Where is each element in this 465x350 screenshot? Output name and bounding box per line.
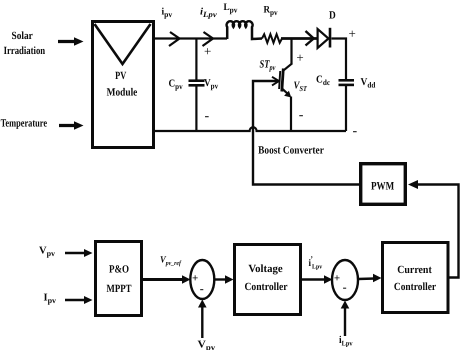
label: V_pv_ref	[160, 256, 182, 268]
capacitor C_pv wire lower	[195, 86, 197, 132]
wire: capacitor C_dc to bottom rail	[345, 85, 347, 131]
label: + in summing junction 1	[192, 272, 198, 284]
label: D	[329, 10, 336, 22]
label: P&O MPPT	[107, 264, 132, 296]
svg-text:Current: Current	[397, 264, 432, 276]
svg-text:Ipv: Ipv	[44, 293, 57, 306]
IGBT ST_pv: collector wire	[283, 39, 292, 71]
svg-text:-: -	[343, 280, 347, 294]
wire: PV module positive output (top rail)	[154, 37, 227, 39]
IGBT ST_pv: emitter with arrow	[282, 89, 291, 131]
label: - (V_ST)	[299, 108, 304, 123]
svg-text:+: +	[296, 50, 303, 65]
wire: diode to DC bus corner down to capacitor	[332, 39, 347, 81]
label: C_pv	[169, 79, 183, 92]
svg-text:Vpv: Vpv	[198, 340, 216, 350]
svg-text:ipv: ipv	[162, 7, 173, 20]
svg-text:Vdd: Vdd	[361, 77, 376, 90]
svg-text:Rpv: Rpv	[264, 5, 278, 18]
label: C_dc	[316, 75, 330, 88]
label: V_pv (capacitor)	[204, 78, 218, 91]
label: + (V_ST)	[296, 50, 303, 65]
arrow: V_pv into MPPT	[65, 249, 93, 257]
svg-text:Solar: Solar	[12, 30, 33, 42]
svg-text:-: -	[299, 108, 304, 123]
svg-text:MPPT: MPPT	[107, 283, 132, 295]
P&O MPPT box	[96, 242, 142, 316]
svg-text:Irradiation: Irradiation	[4, 45, 46, 57]
wire: bottom rail with hop over gate wire	[154, 127, 346, 131]
label: PV Module	[107, 70, 138, 99]
svg-text:Controller: Controller	[394, 281, 436, 293]
arrow: current i_pv on top rail	[169, 32, 180, 46]
label: - in summing junction 1	[200, 281, 204, 295]
label: - (C_pv)	[205, 109, 210, 124]
label: V_pv (MPPT input)	[39, 246, 55, 259]
label: - in summing junction 2	[343, 280, 347, 294]
label: V_pv (below summing junction 1)	[198, 340, 216, 350]
arrow: current i_Lpv on top rail	[203, 32, 214, 46]
svg-text:Boost Converter: Boost Converter	[258, 145, 324, 157]
svg-text:PWM: PWM	[371, 181, 394, 193]
svg-text:Vpv: Vpv	[39, 246, 55, 259]
Voltage Controller box	[235, 245, 301, 315]
label: i_Lpv	[200, 7, 217, 20]
arrow: i_Lpv into summing junction 2	[341, 301, 350, 337]
label: V_ST	[294, 81, 308, 94]
wire: MPPT output to summing junction 1 (thick)	[143, 275, 191, 284]
label: ST_pv	[260, 59, 276, 73]
IGBT ST_pv: gate arrowhead	[272, 77, 279, 86]
PWM box	[361, 164, 406, 205]
svg-text:+: +	[334, 272, 340, 284]
svg-text:Vpv: Vpv	[204, 78, 218, 91]
label: Temperature input	[1, 118, 48, 130]
svg-text:PV: PV	[115, 70, 126, 82]
IGBT ST_pv: body bar	[282, 69, 284, 92]
feedback wire: current controller to PWM	[408, 180, 459, 278]
summing junction 2	[332, 260, 358, 300]
label: i_Lpv (below summing junction 2)	[339, 335, 353, 348]
svg-text:Controller: Controller	[244, 281, 287, 293]
label: I_pv (MPPT input)	[44, 293, 57, 306]
resistor R_pv	[262, 34, 282, 43]
svg-text:+: +	[349, 26, 356, 41]
label: L_pv	[224, 2, 238, 15]
svg-text:STpv: STpv	[260, 59, 276, 73]
svg-text:+: +	[192, 272, 198, 284]
capacitor C_pv plates	[189, 81, 205, 86]
label: R_pv	[264, 5, 278, 18]
svg-text:P&O: P&O	[109, 264, 129, 276]
arrow: temperature into PV module	[59, 121, 84, 130]
label: Solar Irradiation input	[4, 30, 46, 57]
svg-text:-: -	[353, 124, 358, 139]
svg-text:D: D	[329, 10, 336, 22]
label: PWM	[371, 181, 394, 193]
svg-text:Cpv: Cpv	[169, 79, 183, 92]
svg-text:Temperature: Temperature	[1, 118, 48, 130]
capacitor C_pv wire upper	[195, 39, 197, 81]
svg-text:Module: Module	[107, 87, 138, 99]
arrow: V_pv into summing junction 1	[198, 300, 207, 339]
label: + (DC bus)	[349, 26, 356, 41]
arrow: summing junction 2 to current controller	[358, 274, 382, 283]
Current Controller box	[383, 243, 449, 313]
svg-text:VST: VST	[294, 81, 308, 94]
summing junction 1	[190, 260, 214, 299]
label: Current Controller	[394, 264, 436, 293]
arrow: I_pv into MPPT	[65, 296, 93, 304]
label: + in summing junction 2	[334, 272, 340, 284]
arrow: into diode (open)	[306, 31, 314, 46]
PV module box	[93, 22, 154, 148]
IGBT ST_pv: gate bar	[279, 71, 280, 89]
wire: gate to PWM output line	[253, 81, 360, 185]
svg-text:Cdc: Cdc	[316, 75, 330, 88]
wire: voltage controller to summing junction 2	[302, 275, 333, 284]
svg-text:+: +	[204, 44, 211, 59]
inductor L_pv	[227, 21, 262, 39]
svg-text:iLpv: iLpv	[200, 7, 217, 20]
label: i*_Lpv	[309, 255, 323, 271]
svg-text:iLpv: iLpv	[339, 335, 353, 348]
label: Voltage Controller	[244, 263, 287, 293]
label: V_dd	[361, 77, 376, 90]
svg-text:Vpv_ref: Vpv_ref	[160, 256, 182, 268]
svg-text:-: -	[205, 109, 210, 124]
PV module panel V symbol	[95, 24, 151, 64]
diode D	[318, 28, 330, 48]
label: Boost Converter	[258, 145, 324, 157]
label: - (DC bus)	[353, 124, 358, 139]
arrow: solar irradiation into PV module	[58, 37, 84, 46]
label: + (C_pv)	[204, 44, 211, 59]
svg-text:Voltage: Voltage	[248, 263, 282, 275]
svg-text:i’Lpv: i’Lpv	[309, 255, 323, 271]
wire: resistor to diode	[281, 37, 318, 40]
svg-text:-: -	[200, 281, 204, 295]
arrow: summing junction 1 to voltage controller	[215, 275, 234, 284]
svg-text:Lpv: Lpv	[224, 2, 238, 15]
capacitor C_dc	[339, 80, 355, 85]
label: i_pv	[162, 7, 173, 20]
